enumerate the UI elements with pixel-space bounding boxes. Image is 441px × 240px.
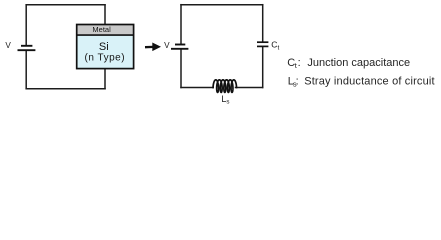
- arrow (transform): [145, 43, 161, 52]
- wire left-loop top: [26, 4, 105, 6]
- battery V1 (left circuit): [18, 46, 36, 50]
- svg-text:V: V: [164, 41, 170, 50]
- capacitor Ct: [257, 42, 268, 46]
- wire right-loop left lower: [180, 49, 182, 87]
- wire right-loop left upper: [180, 5, 182, 44]
- svg-text:Ls:Stray inductance of circuit: Ls:Stray inductance of circuit: [288, 76, 435, 89]
- wire right-loop right lower: [262, 47, 264, 88]
- wire left-loop right lower (from box): [104, 69, 106, 88]
- wire left-loop bottom: [26, 88, 105, 90]
- svg-text:V: V: [5, 41, 11, 50]
- wire right-loop right upper: [262, 5, 264, 42]
- wire left-loop left upper: [25, 5, 27, 45]
- metal-semiconductor box U1: [77, 25, 134, 69]
- wire left-loop left lower: [25, 51, 27, 89]
- wire right-loop top: [181, 4, 263, 6]
- wire left-loop right upper (into box): [104, 5, 106, 24]
- svg-text:(n Type): (n Type): [85, 52, 126, 63]
- inductor Ls: [213, 80, 236, 93]
- wire right-loop bottom left: [181, 87, 213, 89]
- svg-text:Metal: Metal: [92, 25, 111, 34]
- svg-text:Si: Si: [99, 41, 109, 53]
- wire right-loop bottom right: [236, 87, 263, 89]
- battery V2 (right circuit): [171, 45, 188, 49]
